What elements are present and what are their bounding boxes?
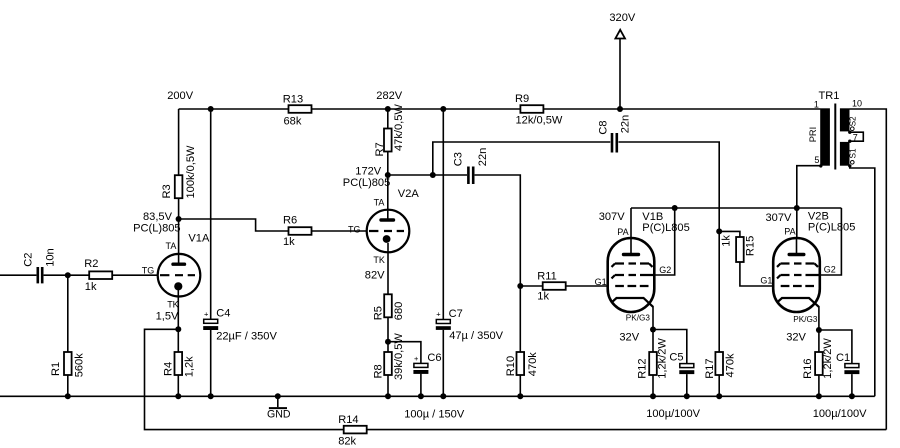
resistor R13 (283, 93, 312, 127)
svg-text:TG: TG (348, 224, 361, 234)
svg-text:5: 5 (814, 155, 819, 165)
wire R16 leads (818, 330, 820, 396)
wire C7 line (442, 109, 444, 396)
svg-text:10: 10 (852, 99, 862, 109)
svg-text:1: 1 (814, 100, 819, 110)
node V1A cathode (175, 326, 181, 332)
node R1-ground junction (65, 393, 71, 399)
svg-text:R13: R13 (283, 93, 303, 105)
svg-text:82V: 82V (365, 270, 385, 282)
label V1B (599, 211, 690, 343)
capacitor C6 (413, 352, 441, 374)
svg-text:TR1: TR1 (819, 90, 840, 102)
wire V2A anode lead inside (387, 209, 389, 221)
svg-text:TA: TA (374, 198, 385, 208)
wire C2 to R2 (44, 274, 90, 276)
svg-text:7: 7 (853, 132, 858, 142)
svg-text:R1: R1 (50, 362, 62, 376)
svg-text:TK: TK (373, 255, 385, 265)
svg-text:10n: 10n (45, 248, 57, 267)
svg-text:39k/0,5W: 39k/0,5W (393, 333, 405, 380)
capacitor C5 (669, 352, 694, 375)
wire C6 branch (388, 342, 421, 397)
capacitor C1 (836, 352, 859, 374)
ground (267, 396, 291, 420)
wire top rail (179, 108, 821, 110)
node R8-ground junction (385, 393, 391, 399)
node 83,5V (133, 211, 182, 235)
svg-text:1,5V: 1,5V (156, 310, 179, 322)
svg-text:282V: 282V (376, 90, 403, 102)
resistor R15 (719, 231, 773, 286)
svg-text:172V: 172V (355, 166, 382, 178)
wire ground rail (0, 395, 875, 397)
svg-text:200V: 200V (167, 90, 194, 102)
triode V1A (142, 232, 210, 322)
node R10-ground junction (517, 393, 523, 399)
svg-text:1,2k: 1,2k (183, 356, 195, 377)
node R12-ground junction (650, 393, 656, 399)
wire 307V anode line (631, 207, 841, 209)
svg-text:R12: R12 (636, 358, 648, 378)
wire S1 bottom to ground (850, 166, 875, 396)
label V2B (766, 210, 856, 343)
svg-text:1,2k/2W: 1,2k/2W (822, 338, 834, 379)
svg-text:22µF / 350V: 22µF / 350V (216, 330, 277, 342)
capacitor C8 (597, 115, 631, 153)
svg-text:1k: 1k (537, 290, 549, 302)
svg-text:R10: R10 (505, 356, 517, 376)
svg-text:1k: 1k (85, 281, 97, 293)
svg-text:TK: TK (167, 300, 179, 310)
svg-text:R4: R4 (162, 362, 174, 376)
svg-text:22n: 22n (477, 148, 489, 167)
svg-text:V1A: V1A (188, 232, 210, 244)
svg-text:47µ / 350V: 47µ / 350V (449, 330, 503, 342)
svg-text:C6: C6 (427, 352, 441, 364)
svg-text:P(C)L805: P(C)L805 (642, 222, 689, 234)
capacitor C3 (453, 148, 490, 184)
wire V2A cathode to R5 (387, 243, 389, 294)
wire V2B PA lead and TR1 pin5 riser (797, 166, 821, 255)
wire V2B cathode (818, 306, 820, 330)
svg-text:1k: 1k (283, 236, 295, 248)
capacitor C7 (436, 308, 504, 342)
capacitor C2 (23, 248, 57, 283)
svg-text:C3: C3 (453, 152, 465, 166)
resistor R17 (704, 352, 736, 379)
node input junction (65, 272, 71, 278)
node V2B cathode junction (816, 327, 822, 333)
svg-text:1,2k/2W: 1,2k/2W (656, 338, 668, 379)
resistor R7 (374, 104, 405, 221)
svg-text:C8: C8 (597, 120, 609, 134)
wire input line (0, 274, 36, 276)
svg-text:C2: C2 (23, 253, 35, 267)
svg-text:680: 680 (393, 302, 405, 321)
svg-text:+: + (204, 309, 209, 318)
wire C3 out to R10 column (475, 175, 521, 396)
node R11 branch (517, 283, 523, 289)
svg-text:22n: 22n (620, 115, 632, 134)
svg-text:R9: R9 (515, 93, 529, 105)
node C8 branch (430, 172, 436, 178)
svg-text:PRI: PRI (808, 127, 818, 143)
svg-text:82k: 82k (338, 435, 356, 447)
node R4-ground junction (175, 393, 181, 399)
svg-text:S1: S1 (848, 148, 857, 158)
resistor R8 (372, 333, 405, 380)
wire V1A cathode junction (177, 286, 179, 329)
pentode V2B (760, 227, 835, 325)
wire R12 leads (652, 330, 654, 397)
svg-text:G2: G2 (824, 265, 836, 275)
pentode V1B (595, 227, 672, 322)
resistor R6 (283, 214, 312, 247)
resistor R1 (50, 352, 85, 377)
svg-text:R11: R11 (537, 271, 557, 283)
svg-text:C7: C7 (449, 308, 463, 320)
svg-text:32V: 32V (786, 332, 806, 344)
label electrolytic values bottom (404, 408, 867, 420)
svg-text:12k/0,5W: 12k/0,5W (516, 114, 563, 126)
transformer TR1 (808, 90, 863, 170)
node R15 branch (716, 228, 722, 234)
svg-text:PK/G3: PK/G3 (626, 314, 651, 323)
svg-text:R14: R14 (338, 414, 358, 426)
wire V1B cathode (652, 306, 654, 330)
svg-text:100µ/100V: 100µ/100V (813, 408, 867, 420)
svg-text:V2A: V2A (398, 188, 420, 200)
svg-text:+: + (414, 354, 419, 363)
svg-text:560k: 560k (74, 353, 86, 378)
svg-text:C4: C4 (216, 308, 230, 320)
node C7-ground junction (440, 393, 446, 399)
wire R2 to V1A grid (112, 274, 158, 276)
wire C4 line (210, 109, 212, 396)
capacitor C4 (203, 308, 277, 343)
svg-text:307V: 307V (766, 212, 793, 224)
node R16-ground junction (816, 393, 822, 399)
node C4-ground junction (208, 393, 214, 399)
wire C8 branch (433, 142, 719, 396)
node 282V (376, 90, 403, 112)
svg-text:GND: GND (267, 408, 291, 420)
node R17-ground junction (716, 393, 722, 399)
wire R6 path from 83,5V node to V2A grid (179, 219, 367, 231)
resistor R4 (162, 352, 195, 377)
node GND-ground junction (275, 393, 281, 399)
wire R4 leads (177, 329, 179, 396)
svg-text:R3: R3 (161, 184, 173, 198)
svg-text:470k: 470k (527, 352, 539, 377)
svg-text:+: + (436, 310, 441, 319)
svg-text:68k: 68k (284, 115, 302, 127)
svg-text:PA: PA (784, 227, 795, 237)
svg-text:R17: R17 (704, 358, 716, 378)
svg-text:G1: G1 (595, 277, 607, 287)
wire 172V to C3 (388, 174, 467, 176)
node C4 branch (208, 106, 214, 112)
svg-text:TG: TG (142, 265, 155, 275)
node V1B cathode junction (650, 327, 656, 333)
svg-text:R2: R2 (84, 258, 98, 270)
wire V2B G2 loop (820, 208, 842, 275)
svg-text:PK/G3: PK/G3 (793, 315, 818, 324)
svg-text:R5: R5 (372, 306, 384, 320)
wire V1B G2 loop (654, 208, 675, 275)
wire V1A anode lead (178, 219, 180, 264)
node C5-ground junction (684, 393, 690, 399)
svg-text:S2: S2 (848, 116, 857, 126)
resistor R14 (338, 414, 367, 447)
svg-text:1k: 1k (721, 235, 733, 247)
resistor R9 (515, 93, 563, 127)
node C6-ground junction (418, 393, 424, 399)
svg-text:320V: 320V (609, 12, 636, 24)
svg-text:100k/0,5W: 100k/0,5W (185, 145, 197, 199)
wire V1B PA lead (630, 208, 632, 255)
wire R1 branch (67, 275, 69, 396)
node C1-ground junction (849, 393, 855, 399)
resistor R5 (372, 294, 405, 320)
svg-text:R7: R7 (374, 142, 386, 156)
supply 320V arrow (609, 12, 636, 109)
node cathode V2A junction (385, 339, 391, 345)
resistor R11 (520, 271, 608, 303)
node 172V (343, 166, 391, 190)
svg-text:470k: 470k (724, 353, 736, 378)
svg-text:83,5V: 83,5V (143, 211, 173, 223)
wire C1 branch (819, 330, 852, 396)
svg-text:R8: R8 (372, 364, 384, 378)
svg-text:R15: R15 (744, 236, 756, 256)
wire R5 to R8 (387, 317, 389, 396)
svg-text:32V: 32V (619, 331, 639, 343)
svg-text:C1: C1 (836, 352, 850, 364)
wire feedback loop to R14 (145, 329, 887, 429)
svg-text:100µ/100V: 100µ/100V (646, 408, 700, 420)
svg-text:47k/0,5W: 47k/0,5W (393, 104, 405, 151)
node 320V junction (617, 106, 623, 112)
resistor R16 (802, 338, 834, 379)
node V2B PA tie (794, 205, 800, 211)
triode V2A (348, 188, 419, 282)
resistor R12 (636, 338, 668, 379)
svg-text:R16: R16 (802, 358, 814, 378)
svg-text:PC(L)805: PC(L)805 (343, 177, 390, 189)
wire TR1 pin10 to feedback column (850, 109, 887, 430)
svg-text:C5: C5 (669, 352, 683, 364)
resistor R10 (505, 352, 539, 377)
svg-text:TA: TA (166, 241, 177, 251)
svg-text:G1: G1 (760, 275, 772, 285)
svg-text:P(C)L805: P(C)L805 (808, 221, 855, 233)
node C7 top (440, 106, 446, 112)
svg-text:307V: 307V (599, 211, 626, 223)
svg-text:G2: G2 (659, 265, 671, 275)
svg-text:PA: PA (617, 227, 628, 237)
resistor R3 (161, 109, 197, 219)
node V1B G2 tie (672, 205, 678, 211)
svg-text:R6: R6 (283, 214, 297, 226)
svg-text:PC(L)805: PC(L)805 (133, 223, 180, 235)
svg-text:100µ / 150V: 100µ / 150V (404, 408, 465, 420)
wire C5 branch (653, 330, 687, 397)
resistor R2 (84, 258, 112, 293)
